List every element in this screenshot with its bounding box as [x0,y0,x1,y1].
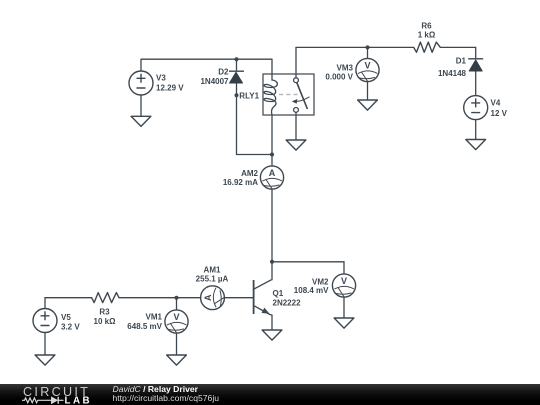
svg-text:RLY1: RLY1 [239,91,259,100]
switch blade [297,82,308,109]
svg-text:10 kΩ: 10 kΩ [94,317,117,326]
resistor R6 [414,42,441,52]
wire relay switch bottom to ground [295,112,297,140]
svg-text:V4: V4 [491,99,501,108]
junction VM3 tap [366,45,370,49]
wire V5 bottom to ground [44,332,46,355]
wire node to AM1 [177,297,201,299]
wire VM3 stem [367,47,369,58]
svg-text:0.000 V: 0.000 V [325,72,353,81]
wire AM2 bottom to collector node [271,189,273,262]
RLY1 label anchor dot [235,93,239,97]
svg-text:A: A [203,294,213,301]
svg-text:V5: V5 [61,313,71,322]
svg-text:108.4 mV: 108.4 mV [294,286,329,295]
actuation arrow [296,97,310,102]
resistor R3 [92,293,119,303]
wire relay switch top to top rail [295,47,297,77]
wire V4 bottom to ground [475,120,477,140]
svg-text:12.29 V: 12.29 V [156,84,184,93]
svg-text:Q1: Q1 [273,289,284,298]
svg-text:V: V [173,312,179,322]
svg-text:AM2: AM2 [241,169,258,178]
wire D2 bottom to junction [237,83,273,155]
wire Q1 emitter to ground [271,315,273,330]
footer credit text [113,385,220,405]
voltmeter VM1 [165,310,188,334]
wire V3 top to relay coil top [141,59,272,74]
junction VM1 tap [175,296,179,300]
voltage source V3 [129,71,153,95]
ground below VM3 [358,100,378,110]
ground below V5 [35,355,55,365]
svg-text:12 V: 12 V [491,109,508,118]
wire D1 to V4 [475,71,477,96]
junction coil bottom node [270,153,274,157]
svg-text:V3: V3 [156,74,166,83]
svg-text:R6: R6 [421,21,432,30]
svg-text:R3: R3 [99,308,110,317]
relay RLY1 [263,74,314,115]
svg-text:1 kΩ: 1 kΩ [418,30,436,39]
footer bar [0,384,540,405]
ammeter AM2 [260,166,283,190]
ground below V4 [466,140,486,150]
svg-text:V: V [341,276,347,286]
svg-text:V: V [364,61,370,71]
voltage source V5 [33,309,57,333]
voltage source V4 [464,96,488,120]
junction collector node [270,260,274,264]
voltmeter VM3 [356,58,379,82]
dashed link [279,94,298,96]
wire D2 branch down [236,59,238,71]
wire V3 bottom to ground [140,95,142,116]
voltmeter VM2 [332,274,355,298]
wire R3 to VM1 node [119,297,177,299]
ground below VM1 [167,355,187,365]
wire R6 to D1 [440,47,475,58]
svg-text:VM1: VM1 [146,313,163,322]
svg-text:2N2222: 2N2222 [273,299,302,308]
svg-text:3.2 V: 3.2 V [61,322,80,331]
svg-text:AM1: AM1 [204,265,221,274]
svg-text:648.5 mV: 648.5 mV [127,322,162,331]
svg-text:D2: D2 [218,68,229,77]
svg-text:VM3: VM3 [337,63,354,72]
ground below Q1 emitter [262,330,282,340]
wire VM1 bottom to ground [176,333,178,355]
ammeter AM1 (rotated) [201,286,225,310]
switch pin top [294,78,299,83]
svg-text:1N4148: 1N4148 [438,69,467,78]
coil [264,74,277,115]
wire top rail to R6 [296,46,414,48]
svg-text:A: A [269,168,276,178]
wire V5 top to R3 [45,298,92,309]
wire collector node to Q1 collector [271,262,273,280]
svg-text:255.1 µA: 255.1 µA [196,274,229,283]
wire collector node to VM2 [272,262,344,274]
svg-text:D1: D1 [456,57,467,66]
transistor Q1 [254,280,272,315]
diode D2 1N4007 [229,71,244,83]
ground below VM2 [334,318,354,328]
diode D1 1N4148 [468,59,483,71]
emitter arrow [262,308,270,314]
svg-text:16.92 mA: 16.92 mA [223,178,258,187]
svg-text:LAB: LAB [65,395,93,405]
ground below relay switch [286,140,306,150]
ground below V3 [131,116,151,126]
wire VM3 bottom to ground [367,82,369,100]
wire VM2 bottom to ground [343,297,345,318]
svg-text:1N4007: 1N4007 [200,77,229,86]
junction D2 tap on top rail [235,57,239,61]
switch pin bottom [294,108,299,113]
wire relay coil bottom to AM2 [271,115,273,166]
wire VM1 stem [176,298,178,310]
CircuitLab logo [18,384,118,405]
wire AM1 to Q1 base [224,297,253,299]
